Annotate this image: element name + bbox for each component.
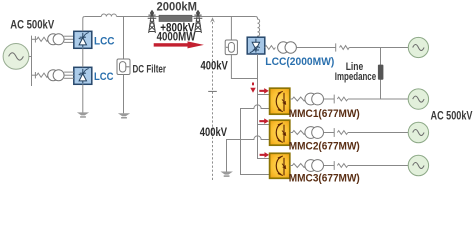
tower TW1 [148,10,157,33]
tick MMC1 branch [333,95,335,104]
three-phase link T1 to LCC [64,36,74,42]
wire to G3 [348,98,408,100]
MMC2 branch: zigzag [290,131,306,135]
DC line corner + smoothing reactor L2 [255,17,259,38]
wire DC filter tap [123,17,125,60]
sine wave G5 [413,163,424,169]
transformer T2 [48,70,64,81]
MMC3 branch: zigzag [290,164,306,168]
wire G1 to bus [29,56,32,58]
DC Filter F1 [117,59,130,75]
wire v2 branch to MMC1 [258,94,270,96]
sine wave G2 [413,45,424,51]
line impedance branch wire [380,48,382,100]
tick MMC3 branch [333,161,335,170]
svg-text:LCC: LCC [94,36,115,48]
svg-text:AC 500kV: AC 500kV [10,18,55,32]
MMC converter M3 (box) [270,153,290,178]
marker arrowhead [210,17,215,22]
red arrow into MMC2 [259,118,269,124]
svg-text:MMC3(677MW): MMC3(677MW) [289,173,360,185]
wire v2: U3 bottom down to MMC3 [258,54,270,159]
transformer T5 [305,127,324,139]
svg-text:DC Filter: DC Filter [133,63,167,75]
DC filter F2 [225,40,237,55]
LCC converter U1 (box) [74,31,92,48]
svg-text:400kV: 400kV [201,59,229,73]
AC source G3 [408,89,428,109]
grid zigzag MMC1 [337,97,348,101]
wire U1-U2 series link [82,48,84,67]
wire DC filter to ground [123,75,125,114]
AC source G1 (sending grid) [3,44,29,70]
wire U2 bottom to ground [82,84,84,112]
svg-text:MMC1(677MW): MMC1(677MW) [289,108,360,120]
ground (sending neutral) [77,112,89,117]
DC line +800kV top [85,16,256,18]
red arrow into MMC3 [260,152,270,158]
wire T3 to grid tick [296,47,335,49]
tick bottom branch [34,72,36,78]
AC source G2 [408,37,428,57]
ground (receiving neutral) [221,172,233,177]
grid zigzag top-right [340,46,350,50]
svg-text:Impedance: Impedance [335,71,376,83]
wire to G4 [348,132,408,134]
wire F2 bottom to junction [231,55,257,79]
transformer T3 [278,42,297,53]
red arrow (dashed, down) at MMC group [250,83,255,93]
marker tick [208,90,217,92]
wire v2 branch to MMC2 [258,124,270,126]
DC smoothing reactor L1 (top line) [101,14,116,17]
wire MMC1 return with hop over v2 [241,105,270,175]
wire U1 top to DC line corner [83,17,85,32]
svg-text:AC 500kV: AC 500kV [431,108,473,122]
400kV marker dashed line [212,22,214,181]
MMC1 branch: zigzag [290,97,306,101]
transformer T6 [305,160,324,172]
line impedance Z1 [378,65,384,80]
sine wave G4 [413,130,424,136]
wire bottom branch [32,74,38,76]
sine wave in G1 [9,53,24,60]
svg-text:4000MW: 4000MW [157,29,196,43]
impedance zigzag top branch [37,37,49,41]
bus (sending AC bus) [31,36,33,86]
transformer T4 [305,93,324,105]
wire MMC2 return with hop over v2 [227,136,270,172]
impedance zigzag U3 output [265,46,276,50]
wire to AC source G2 [349,47,408,49]
svg-text:LCC: LCC [94,71,114,83]
tick MMC2 branch [333,128,335,137]
wire T5 to tick [324,132,335,134]
wire T6 to tick [324,165,335,167]
tower TW2 [194,10,203,33]
wire top branch [32,38,38,40]
red arrow into MMC1 [259,88,269,94]
wire v1 drop from DC line [230,17,232,41]
svg-text:400kV: 400kV [200,125,228,139]
LCC converter U2 (box) [74,67,92,84]
impedance zigzag bottom branch [37,73,49,77]
tick top branch [34,36,36,42]
LCC converter U3 (receiving, box) [247,37,265,54]
power flow arrow (red) [154,41,204,48]
svg-text:LCC(2000MW): LCC(2000MW) [265,56,334,68]
AC source G4 [408,122,428,142]
DC line bar [159,15,192,21]
transformer T1 [48,34,64,45]
AC source G5 [408,155,428,175]
wire T4 to tick [324,98,335,100]
svg-text:MMC2(677MW): MMC2(677MW) [289,141,360,153]
tick top-right branch [335,43,337,51]
MMC converter M2 (box) [270,120,290,145]
sine wave G3 [413,96,424,102]
three-phase link T2 to LCC [64,72,74,78]
svg-text:2000kM: 2000kM [157,0,198,13]
wire to G5 [348,165,408,167]
ground (DC filter) [118,113,130,118]
grid zigzag MMC3 [337,164,348,168]
grid zigzag MMC2 [337,131,348,135]
MMC converter M1 (box) [270,88,290,114]
